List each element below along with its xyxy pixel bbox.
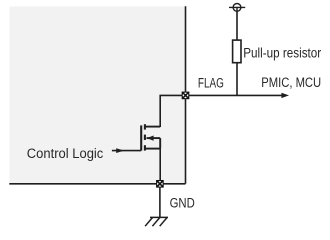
IC block bottom edge [9,183,185,185]
ground [145,217,168,226]
IC block background [10,7,186,184]
node FLAG pin [182,92,190,100]
arrowhead control logic [116,148,124,153]
wire source to GND node [159,149,161,184]
svg-text:PMIC, MCU: PMIC, MCU [261,75,321,90]
channel dash top [144,124,146,129]
svg-text:GND: GND [170,195,195,210]
body line with arrow [147,137,161,139]
resistor R pull-up [233,40,241,63]
wire FLAG output line [186,94,283,96]
supply terminal (pull-up voltage) [229,4,245,12]
svg-text:Pull-up resistor: Pull-up resistor [243,46,321,61]
IC block right edge [185,6,187,184]
channel dash middle [144,135,146,140]
transistor Q1 N-channel MOSFET [141,124,160,150]
channel dash bottom [144,145,146,150]
wire resistor to FLAG line [236,63,238,96]
gate plate [140,125,142,150]
body-source tie [159,138,161,149]
svg-text:Control Logic: Control Logic [27,146,104,161]
wire drain to FLAG node [160,95,185,127]
wire GND node to ground symbol [159,184,161,217]
node GND pin [156,180,164,188]
arrowhead to PMIC, MCU [281,93,289,98]
svg-text:FLAG: FLAG [198,76,224,91]
wire control logic to gate [112,150,141,152]
wire supply to resistor [236,11,238,40]
drain stub [145,126,160,128]
source stub [145,148,160,150]
